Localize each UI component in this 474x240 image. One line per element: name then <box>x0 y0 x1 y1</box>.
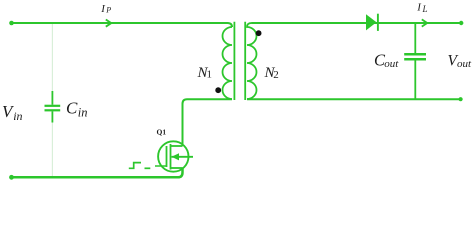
node input top terminal <box>9 21 14 26</box>
gate drive pulse symbol <box>129 163 141 169</box>
svg-text:out: out <box>457 58 472 70</box>
wire secondary top rail to output <box>252 22 462 24</box>
wire Cin branch faint <box>51 24 53 176</box>
wire secondary bottom rail <box>247 98 461 100</box>
svg-text:P: P <box>105 6 111 15</box>
transistor Q1 arrow <box>172 153 180 160</box>
transformer core bars <box>234 22 245 100</box>
node output bottom terminal <box>459 97 463 101</box>
node secondary polarity dot <box>256 30 262 36</box>
transformer secondary winding N2 <box>247 23 257 99</box>
svg-text:L: L <box>422 4 428 14</box>
svg-text:in: in <box>13 109 22 123</box>
svg-text:out: out <box>384 58 399 70</box>
node output top terminal <box>459 21 463 25</box>
diode D1 cathode bar <box>377 14 379 31</box>
wire primary bottom to MOSFET drain <box>183 99 233 146</box>
wire input top rail <box>12 23 233 27</box>
svg-text:Q1: Q1 <box>157 128 167 137</box>
svg-text:1: 1 <box>207 69 213 81</box>
wire source to bottom rail <box>12 168 183 177</box>
svg-text:in: in <box>78 106 88 120</box>
svg-text:2: 2 <box>273 69 279 81</box>
capacitor Cout <box>404 23 426 99</box>
transformer T1 primary winding N1 <box>223 27 233 99</box>
arrow Ip current <box>106 20 111 27</box>
capacitor Cin <box>45 91 61 123</box>
node primary polarity dot <box>215 87 221 93</box>
arrow IL current <box>422 19 427 26</box>
diode D1 triangle <box>366 14 377 30</box>
gate drive dash <box>145 167 151 169</box>
transistor Q1 MOSFET <box>155 141 193 171</box>
svg-text:C: C <box>66 98 78 117</box>
svg-text:I: I <box>416 2 422 14</box>
node input bottom terminal <box>9 175 14 180</box>
